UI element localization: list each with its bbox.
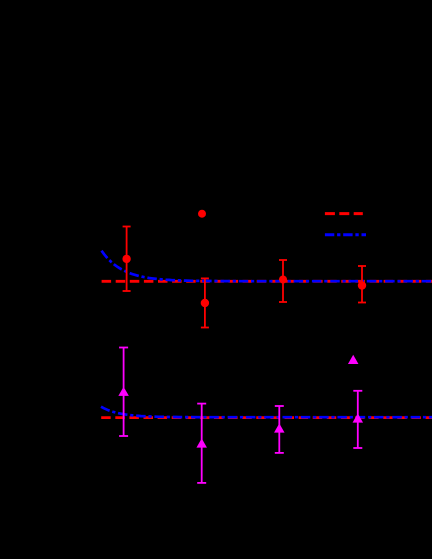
bottom panel: data point 2 (magenta triangle) <box>196 438 207 447</box>
top panel: error bar of data point 3 <box>201 278 209 327</box>
bottom panel: error bar of data point 4 <box>353 391 362 448</box>
bottom panel: error bar of data point 2 <box>197 404 206 483</box>
top panel: data point 1 (red circle) <box>122 255 130 263</box>
top panel: data point 4 (red circle) <box>279 276 287 284</box>
top panel: data point 3 (red circle) <box>201 299 209 307</box>
top panel: error bar of data point 4 <box>279 260 287 302</box>
top panel: lone data point 2 (red circle, no error bar) <box>198 210 206 218</box>
top panel: blue dash-dot fit curve <box>102 251 432 282</box>
bottom panel: error bar of data point 3 <box>275 406 284 453</box>
bottom panel: red dashed baseline <box>101 416 432 419</box>
bottom panel: error bar of data point 1 <box>119 348 128 437</box>
bottom panel: data point 4 (magenta triangle) <box>353 413 364 422</box>
bottom panel: data point 1 (magenta triangle) <box>118 387 129 396</box>
bottom panel: data point 3 (magenta triangle) <box>274 423 285 432</box>
legend: red dashed line sample <box>325 212 363 215</box>
top panel: error bar of data point 1 <box>123 227 131 292</box>
bottom panel: blue dash-dot fit curve <box>101 407 432 418</box>
top panel: error bar of data point 5 <box>358 266 366 303</box>
bottom panel: lone data point 5 (magenta triangle, no error bar) <box>348 355 359 364</box>
top panel: red dashed baseline <box>102 280 432 283</box>
top panel: data point 5 (red circle) <box>358 281 366 289</box>
legend: blue dash-dot line sample <box>325 233 366 236</box>
